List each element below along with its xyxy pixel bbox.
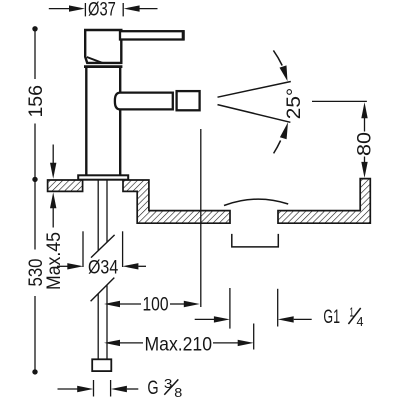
dimension D34 left tick <box>82 231 84 267</box>
svg-text:8: 8 <box>174 386 182 400</box>
deck slab middle piece with step <box>123 180 230 223</box>
drain outline <box>232 234 278 247</box>
faucet cartridge cap <box>85 30 121 63</box>
svg-text:G: G <box>147 377 158 399</box>
bowl surface arc <box>224 199 288 205</box>
pipe break slash upper <box>91 235 115 258</box>
deck slab left piece <box>48 180 83 191</box>
dimension 100 right arrow <box>170 301 200 307</box>
dimension D37 right arrow <box>124 5 158 11</box>
base flange <box>78 175 128 179</box>
dimension 530 line lower <box>34 296 36 370</box>
svg-text:Ø34: Ø34 <box>88 257 118 279</box>
spray angle lower arc arrow <box>274 122 288 153</box>
dimension G3/8 right arrow <box>111 386 138 392</box>
dimension Max45 up arrow <box>50 192 56 227</box>
dimension G3/8 right tick <box>110 380 112 397</box>
dimension 530 line upper <box>34 179 36 249</box>
dimension G1-1/4 left arrow <box>195 316 230 322</box>
dimension G3/8 left tick <box>93 380 95 397</box>
svg-text:3: 3 <box>164 377 173 391</box>
handle lever <box>120 31 184 39</box>
dimension 530 bottom dot <box>32 369 37 374</box>
supply pipe left line <box>97 180 99 360</box>
pipe break slash lower <box>91 278 115 302</box>
svg-text:25°: 25° <box>283 88 305 120</box>
dimension 156 line lower <box>34 124 36 178</box>
dimension Max210 extension line <box>253 324 255 350</box>
svg-text:Max.45: Max.45 <box>43 232 65 290</box>
spout height reference line <box>312 100 367 102</box>
dimension Max45 down arrow <box>50 145 56 179</box>
svg-text:G1: G1 <box>323 306 340 328</box>
deck slab right piece with rim riser <box>278 179 370 224</box>
dimension deck dot <box>32 177 37 182</box>
dimension D37 left tick <box>84 3 86 16</box>
G3/8 fitting <box>92 359 111 371</box>
dimension G1-1/4 right extension line <box>277 289 279 327</box>
dimension D34 left arrow <box>57 263 83 269</box>
dimension D34 right tick <box>122 231 124 267</box>
label G3/8 <box>147 377 182 400</box>
svg-text:Ø37: Ø37 <box>88 0 116 21</box>
handle end cap <box>182 30 185 40</box>
aerator outlet reference line <box>200 129 202 307</box>
svg-text:Max.210: Max.210 <box>145 333 213 355</box>
dimension G1-1/4 left extension line <box>229 288 231 329</box>
label G1-1/4 <box>323 305 363 328</box>
faucet body left side <box>85 68 87 175</box>
supply pipe right line <box>106 180 108 360</box>
dimension 156 top dot <box>32 26 37 31</box>
dimension Max210 left arrow <box>104 340 143 346</box>
cartridge wedge diagonal <box>87 57 103 63</box>
spray angle upper arc arrow <box>273 50 287 81</box>
aerator <box>177 91 200 110</box>
dimension 100 left arrow <box>104 301 141 307</box>
svg-text:80: 80 <box>354 132 376 156</box>
svg-text:156: 156 <box>25 85 47 118</box>
dimension D37 right tick <box>122 3 124 16</box>
spout cylinder <box>115 93 173 110</box>
svg-text:100: 100 <box>143 293 169 315</box>
dimension 156 line upper <box>34 29 36 79</box>
dimension D37 left arrow <box>49 5 85 11</box>
dimension 80 down arrow <box>361 157 367 178</box>
faucet body right side <box>119 68 121 92</box>
dimension G1-1/4 right arrow <box>278 316 312 322</box>
spray angle upper arm <box>218 82 291 98</box>
dimension G3/8 left arrow <box>58 386 94 392</box>
dimension Max210 right arrow <box>213 340 254 346</box>
faucet body seam <box>84 65 122 68</box>
dimension 80 up arrow <box>361 102 367 131</box>
faucet body right side lower <box>119 110 121 175</box>
svg-text:4: 4 <box>357 315 364 329</box>
spray angle lower arm <box>218 105 291 123</box>
dimension D34 right arrow <box>122 263 146 269</box>
